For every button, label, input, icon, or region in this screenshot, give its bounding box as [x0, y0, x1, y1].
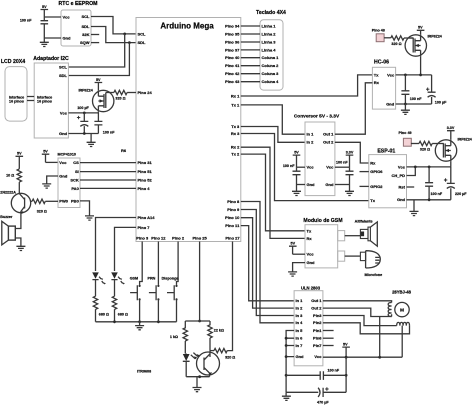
svg-text:Pino 51: Pino 51 — [138, 169, 153, 174]
ground (buzzer) — [16, 246, 25, 250]
svg-text:Pino 10: Pino 10 — [225, 215, 240, 220]
ground (RTC) — [40, 38, 49, 47]
transistor Q1 IRF9Z24 (adaptador supply) — [78, 89, 113, 112]
svg-text:22 kΩ: 22 kΩ — [214, 328, 224, 332]
wire resistor to gate — [404, 37, 414, 39]
svg-text:Pino 41: Pino 41 — [225, 63, 240, 68]
wire Pino 9 to In3 — [241, 210, 294, 316]
svg-text:In 5: In 5 — [296, 328, 304, 333]
svg-text:Out 1: Out 1 — [311, 298, 322, 303]
svg-text:Pino 43: Pino 43 — [225, 79, 240, 84]
svg-text:3.3V: 3.3V — [346, 150, 354, 154]
wire SDL to Adaptador — [68, 43, 129, 76]
svg-text:320 Ω: 320 Ω — [225, 355, 235, 359]
node emitter-rail — [198, 375, 201, 378]
svg-text:SQW: SQW — [80, 40, 90, 45]
node rail junctions — [113, 320, 160, 323]
wire Pino 2 to button — [177, 242, 179, 285]
svg-text:Out 1: Out 1 — [323, 132, 334, 137]
pin 32K stub — [91, 34, 99, 36]
svg-text:IRF9Z24: IRF9Z24 — [428, 35, 443, 39]
wire Pino 25 down — [199, 242, 201, 322]
svg-text:Pino 3: Pino 3 — [136, 236, 149, 241]
inductor coil B (bottom) — [397, 322, 410, 325]
wire Pino 8 to In4 — [241, 202, 294, 323]
node Gnd junction — [404, 103, 407, 106]
svg-text:ITR9608: ITR9608 — [137, 370, 151, 374]
svg-text:Linha 4: Linha 4 — [262, 47, 277, 52]
wire Pino A14 to LED1 — [96, 218, 137, 272]
svg-text:Teclado 4X4: Teclado 4X4 — [256, 10, 286, 16]
wire Pino 41 Coluna 2 — [241, 65, 260, 67]
pushbutton S2 PRN — [149, 285, 160, 301]
svg-text:Pino 7: Pino 7 — [138, 225, 151, 230]
svg-text:Linha 1: Linha 1 — [262, 23, 277, 28]
svg-text:Vcc: Vcc — [307, 252, 315, 257]
svg-text:Out 2: Out 2 — [311, 306, 322, 311]
wire Tx2 to GSM Tx — [241, 154, 305, 231]
svg-text:Adaptador I2C: Adaptador I2C — [33, 56, 69, 62]
pin Rst stub — [407, 186, 415, 188]
svg-text:SDL: SDL — [59, 73, 68, 78]
wire Pino 43 Coluna 4 — [241, 81, 260, 83]
wire gate to Pino 24 — [127, 92, 136, 94]
wire pad to gate resistor — [411, 143, 419, 145]
wire SCL RTC to Arduino — [91, 17, 136, 34]
resistor 320 ohm (pino 49) — [419, 141, 432, 151]
inductor coil A (left) — [388, 303, 391, 317]
wire 5V to MCP Vcc — [46, 161, 59, 163]
svg-text:Pin2: Pin2 — [313, 320, 322, 325]
svg-text:680 Ω: 680 Ω — [118, 313, 128, 317]
wire Out1 to coil A top — [323, 301, 392, 303]
ground (GSM) — [288, 272, 297, 276]
wire SCL to Adaptador — [68, 34, 124, 67]
wire ground rail (LEDs/buttons) — [96, 321, 177, 323]
wire PA0 to Pino 4 — [80, 187, 136, 189]
wire Rx2 to GSM Rx — [241, 147, 305, 238]
wire Pino 12 to button — [157, 242, 159, 285]
connector tab (microphone) — [338, 251, 345, 261]
wire ITR bottom rail — [186, 376, 209, 378]
ground (button rail) — [135, 322, 144, 330]
resistor 22 kOhm — [208, 321, 224, 351]
wire pad to gate resistor — [384, 37, 391, 39]
wire Pin3 to coil B left — [323, 316, 397, 326]
svg-text:Tx: Tx — [370, 198, 375, 203]
svg-text:CH_PD: CH_PD — [391, 173, 405, 178]
node Gnd-cap junction — [83, 132, 86, 135]
svg-text:Pino 11: Pino 11 — [225, 223, 240, 228]
pin Pin7 stub — [323, 345, 334, 347]
wire Pino 3 to button — [140, 242, 143, 285]
svg-text:In 4: In 4 — [296, 320, 304, 325]
power 3.3V (ESP MOSFET) — [447, 126, 455, 140]
svg-text:ESP-01: ESP-01 — [377, 149, 395, 155]
svg-text:Gnd: Gnd — [307, 182, 316, 187]
optocoupler ITR9608 — [137, 351, 220, 377]
svg-text:Pino 36: Pino 36 — [225, 39, 240, 44]
wire SDL RTC to Arduino — [91, 27, 136, 43]
svg-text:Microfone: Microfone — [365, 273, 383, 277]
svg-text:Pino 37: Pino 37 — [225, 47, 240, 52]
svg-text:Pino 2: Pino 2 — [172, 236, 185, 241]
resistor 1 kOhm — [170, 321, 188, 354]
svg-text:Modulo de GSM: Modulo de GSM — [303, 218, 342, 224]
svg-text:5V: 5V — [418, 26, 423, 30]
svg-text:28YBJ-48: 28YBJ-48 — [392, 290, 412, 295]
svg-text:M: M — [400, 308, 404, 313]
ground (MCP) — [42, 184, 51, 188]
svg-text:320 Ω: 320 Ω — [115, 96, 125, 100]
wire center tap down — [379, 317, 381, 358]
svg-text:MCP41010: MCP41010 — [58, 153, 76, 157]
svg-text:Rx 3: Rx 3 — [231, 131, 240, 136]
svg-text:Vcc: Vcc — [387, 72, 395, 77]
node SCL junction — [123, 33, 126, 36]
svg-text:Gnd: Gnd — [325, 182, 334, 187]
svg-text:PRN: PRN — [148, 276, 156, 280]
svg-text:Pino 9: Pino 9 — [227, 207, 240, 212]
resistor 320 ohm (pino 48) — [391, 36, 404, 46]
resistor 320 ohm (pino 27) — [214, 348, 235, 359]
svg-text:Pino 12: Pino 12 — [151, 236, 166, 241]
wire Rx3 to ESP Tx — [241, 134, 369, 201]
svg-text:In 6: In 6 — [296, 336, 304, 341]
svg-text:SCL: SCL — [82, 14, 91, 19]
svg-text:IRF9Z24: IRF9Z24 — [78, 89, 93, 93]
resistor 320 ohm (gate pino 24) — [110, 90, 127, 100]
svg-text:320 Ω: 320 Ω — [37, 209, 47, 213]
power 5V (2N2222A) — [16, 152, 24, 169]
wire HC-06 Vcc rail — [396, 74, 432, 76]
capacitor 470 uF (ULN) — [286, 387, 346, 404]
LED D2 — [111, 272, 125, 296]
pushbutton S1 GSM — [130, 285, 141, 301]
ground (ULN) — [282, 392, 291, 400]
svg-text:Tx: Tx — [374, 72, 379, 77]
svg-text:Pino 49: Pino 49 — [398, 131, 411, 135]
power 3.3V (conversor right) — [346, 150, 354, 167]
IC adaptador I2C — [33, 56, 69, 138]
svg-text:R6: R6 — [121, 148, 127, 153]
svg-text:100 µF: 100 µF — [77, 106, 89, 110]
capacitor 100 uF (HC-06) — [426, 75, 447, 104]
wire In5-In7/Gnd bus — [286, 331, 294, 393]
svg-text:470 µF: 470 µF — [317, 401, 329, 405]
node cap junction right — [345, 374, 348, 377]
wire ESP Gnd rail — [407, 199, 451, 201]
svg-text:Pino 27: Pino 27 — [225, 236, 240, 241]
connector tab (speaker) — [338, 231, 345, 241]
wire resistor to gate — [432, 143, 444, 145]
svg-text:Vcc: Vcc — [398, 164, 406, 169]
power 5V (MCP41010) — [42, 150, 50, 163]
wire ITR top rail — [185, 320, 210, 322]
resistor 680 ohm (LED2) — [112, 296, 128, 322]
node Vcc-cap junction — [83, 112, 86, 115]
svg-text:Pin1: Pin1 — [313, 328, 322, 333]
svg-text:100 nF: 100 nF — [20, 18, 32, 22]
ground (ESP) — [410, 200, 419, 216]
svg-text:In 1: In 1 — [296, 298, 304, 303]
wire Pino 10 to In2 — [241, 218, 294, 308]
IC U3 MCP41010 — [58, 153, 81, 208]
resistor 10 ohm — [6, 169, 21, 182]
wire Out1 to HC-06 Rx — [335, 83, 373, 134]
svg-text:Gnd: Gnd — [59, 131, 68, 136]
IC U4 ULN 2803 — [294, 285, 323, 366]
svg-text:100 nF: 100 nF — [431, 192, 443, 196]
wire Out2 to coil A bottom — [323, 308, 392, 316]
wire RTC Gnd — [44, 37, 61, 39]
svg-text:Pino 8: Pino 8 — [227, 199, 240, 204]
svg-text:Vcc: Vcc — [60, 110, 68, 115]
svg-text:Pin3: Pin3 — [313, 313, 322, 318]
svg-text:Disponga: Disponga — [162, 276, 180, 280]
stepper motor 28YBJ-48 — [392, 290, 412, 317]
wire drain to HC-06 Vcc rail — [420, 56, 422, 75]
speaker (altifalante) — [360, 222, 377, 246]
svg-text:In 1: In 1 — [307, 132, 315, 137]
svg-text:Vcc: Vcc — [63, 14, 71, 19]
svg-text:In 7: In 7 — [296, 343, 304, 348]
svg-text:Pino 24: Pino 24 — [138, 90, 153, 95]
wire collector node — [210, 350, 214, 352]
IC ESP-01 — [369, 149, 407, 208]
wire SCK to Pino 52 — [80, 179, 136, 181]
svg-text:Rx 1: Rx 1 — [231, 93, 240, 98]
svg-text:CS: CS — [73, 160, 79, 165]
svg-text:320 Ω: 320 Ω — [420, 148, 430, 152]
svg-text:Tx 3: Tx 3 — [231, 124, 240, 129]
svg-text:100 nF: 100 nF — [410, 97, 422, 101]
power 5V (GSM) — [289, 242, 297, 255]
wire conversor Vcc left — [297, 166, 306, 168]
wire buzzer to ground — [15, 238, 21, 246]
svg-text:ULN 2803: ULN 2803 — [301, 285, 321, 290]
svg-text:RTC e EEPROM: RTC e EEPROM — [59, 1, 98, 7]
power 5V (HC-06 MOSFET) — [417, 26, 425, 35]
node 5V junction — [345, 356, 348, 359]
buzzer — [0, 215, 15, 245]
wire adaptador Vcc rail — [68, 112, 98, 113]
microphone (microfone) — [360, 251, 382, 277]
ground (conversor left) — [292, 185, 301, 196]
resistor 680 ohm (LED1) — [93, 296, 109, 322]
node Pino25-rail — [198, 320, 201, 323]
wire adaptador Gnd rail — [68, 133, 98, 135]
svg-text:Pino 34: Pino 34 — [225, 23, 240, 28]
transistor Q3 IRF9Z24 (HC-06 supply) — [405, 35, 443, 57]
svg-text:Gnd: Gnd — [397, 197, 406, 202]
ground (ITR) — [193, 377, 202, 392]
svg-text:1 kΩ: 1 kΩ — [170, 335, 178, 339]
transistor Q4 IRF9Z24 (ESP supply) — [435, 138, 472, 162]
svg-text:5V: 5V — [291, 242, 296, 246]
node center tap junction — [378, 356, 381, 359]
svg-text:2N2222A: 2N2222A — [0, 191, 16, 195]
svg-text:32K: 32K — [82, 32, 89, 37]
svg-text:Rx: Rx — [370, 160, 376, 165]
pin Pin1 stub — [323, 330, 334, 332]
capacitor 100 uF (adaptador) — [77, 106, 90, 133]
wire Pino 35 Linha 2 — [241, 33, 260, 35]
wire Pino 36 Linha 3 — [241, 41, 260, 43]
svg-text:Conversor 5V - 3.3V: Conversor 5V - 3.3V — [294, 114, 340, 120]
svg-text:Tx 2: Tx 2 — [231, 152, 240, 157]
connector pad Pino 49 — [403, 138, 411, 146]
svg-text:SCL: SCL — [138, 31, 147, 36]
svg-text:5V: 5V — [343, 342, 348, 346]
svg-text:Gnd: Gnd — [307, 260, 316, 265]
svg-text:Pino 25: Pino 25 — [192, 236, 207, 241]
capacitor 100 nF (HC-06) — [401, 75, 422, 104]
svg-text:16 pinos: 16 pinos — [37, 99, 52, 103]
svg-text:GSM: GSM — [130, 276, 138, 280]
svg-text:In 3: In 3 — [296, 313, 304, 318]
svg-text:Pino 35: Pino 35 — [225, 31, 240, 36]
wire Pino 7 to LED2 — [115, 227, 137, 271]
node CH_PD junction — [414, 166, 417, 169]
svg-text:Coluna 3: Coluna 3 — [262, 71, 280, 76]
svg-text:Linha 2: Linha 2 — [262, 31, 277, 36]
pin GPIO6 stub — [360, 171, 369, 173]
wire PB0 to ground — [80, 201, 90, 216]
node Gnd cap junction — [428, 198, 431, 201]
svg-text:680 Ω: 680 Ω — [99, 313, 109, 317]
node Vcc junctions — [404, 74, 422, 77]
pin SQW stub — [91, 42, 99, 44]
wire cap column right — [345, 357, 347, 392]
IC conversor 5V-3.3V — [294, 114, 340, 196]
svg-text:Coluna 4: Coluna 4 — [262, 79, 280, 84]
capacitor 100 nF (conversor left) — [283, 164, 301, 185]
capacitor 100 nF (ULN) — [286, 368, 346, 380]
svg-text:SI: SI — [75, 169, 79, 174]
svg-text:100 nF: 100 nF — [336, 160, 348, 164]
svg-text:Tx 1: Tx 1 — [231, 102, 240, 107]
svg-text:Vcc: Vcc — [326, 165, 334, 170]
LCD 20X4 module — [1, 59, 27, 121]
wire Pino 34 Linha 1 — [241, 25, 260, 27]
resistor 320 ohm (base) — [32, 199, 47, 213]
wire CH_PD tie to Vcc — [407, 167, 416, 176]
wire Out2 to ESP Rx — [335, 142, 369, 163]
IC modulo de GSM — [303, 218, 342, 268]
wire resistor to PW0 — [45, 200, 58, 202]
svg-text:Rx: Rx — [374, 80, 380, 85]
IC HC-06 — [372, 60, 395, 109]
svg-text:PW0: PW0 — [59, 198, 68, 203]
wire 5V to GSM Vcc — [293, 253, 305, 255]
svg-text:SDL: SDL — [82, 24, 91, 29]
svg-text:Pino A14: Pino A14 — [138, 215, 156, 220]
svg-text:Buzzer: Buzzer — [0, 215, 13, 219]
wire Tx1 to conversor In1 — [241, 105, 305, 134]
wire buttons to rail — [140, 299, 177, 321]
svg-text:SCK: SCK — [70, 177, 79, 182]
svg-text:Pin7: Pin7 — [313, 343, 322, 348]
svg-text:Rst: Rst — [399, 184, 406, 189]
svg-text:In 2: In 2 — [296, 306, 304, 311]
ground (HC-06) — [401, 104, 410, 114]
wire Tx3 to conversor In2 — [241, 127, 305, 143]
svg-text:Linha 3: Linha 3 — [262, 39, 277, 44]
svg-text:Pino 40: Pino 40 — [225, 55, 240, 60]
wire Pino 27 down — [227, 242, 232, 351]
svg-text:100 nF: 100 nF — [103, 131, 115, 135]
svg-text:Altifalante: Altifalante — [355, 219, 373, 223]
svg-text:Pino 48: Pino 48 — [372, 28, 385, 32]
wire conversor Gnd right — [335, 184, 350, 186]
power 5V (ULN) — [342, 342, 350, 357]
svg-text:Gnd: Gnd — [59, 174, 68, 179]
svg-text:Pino 4: Pino 4 — [138, 186, 151, 191]
wire LCD-adaptador interface — [27, 97, 34, 101]
svg-text:Pino 52: Pino 52 — [138, 177, 153, 182]
wire GSM Gnd — [293, 263, 305, 272]
svg-text:PB0: PB0 — [71, 198, 80, 203]
svg-text:Vcc: Vcc — [59, 160, 67, 165]
svg-text:3.3V: 3.3V — [447, 126, 455, 130]
svg-text:Out 2: Out 2 — [323, 140, 334, 145]
wire Pino 37 Linha 4 — [241, 49, 260, 51]
wire tab to microphone — [345, 255, 361, 257]
capacitor 100 nF (adaptador) — [94, 113, 115, 135]
ground (PB0) — [85, 216, 94, 220]
wire ESP Vcc rail — [407, 166, 451, 168]
svg-text:5V: 5V — [96, 78, 101, 82]
svg-text:Gnd: Gnd — [63, 35, 72, 40]
ground (conversor right) — [345, 185, 354, 196]
pin GPIO2 stub — [360, 185, 369, 187]
wire coil B center tap — [401, 326, 403, 358]
node Vcc cap junction — [428, 166, 431, 169]
capacitor 100 nF (ESP) — [425, 167, 443, 200]
svg-text:220 µF: 220 µF — [455, 192, 467, 196]
svg-text:Gnd: Gnd — [386, 101, 395, 106]
svg-text:Coluna 2: Coluna 2 — [262, 63, 280, 68]
capacitor 220 uF (ESP) — [444, 167, 467, 200]
wire Pin2 to coil B right — [323, 323, 410, 334]
svg-text:SDL: SDL — [138, 40, 147, 45]
svg-text:Pino 31: Pino 31 — [138, 160, 153, 165]
pushbutton S3 Disponga — [167, 285, 178, 301]
svg-text:100 nF: 100 nF — [328, 368, 340, 372]
svg-text:Rx: Rx — [307, 236, 313, 241]
wire RTC Vcc — [44, 16, 61, 18]
svg-text:Coluna 1: Coluna 1 — [262, 55, 280, 60]
svg-text:100 nF: 100 nF — [283, 164, 295, 168]
svg-text:HC-06: HC-06 — [374, 60, 389, 66]
IC U2 Arduino Mega — [136, 18, 241, 242]
capacitor 100 nF (conversor right) — [336, 160, 354, 184]
svg-text:LCD 20X4: LCD 20X4 — [1, 59, 25, 65]
wire base — [31, 200, 32, 202]
IC U1 RTC e EEPROM — [59, 1, 98, 46]
svg-text:SCL: SCL — [59, 65, 68, 70]
power 5V (RTC) — [41, 5, 49, 17]
svg-text:100 µF: 100 µF — [435, 100, 447, 104]
wire Pino 40 Coluna 1 — [241, 57, 260, 59]
power 5V (MOSFET adaptador) — [95, 78, 103, 90]
node bus junctions — [285, 337, 288, 377]
wire Pino 11 to In1 — [241, 226, 294, 301]
wire conversor Vcc right — [335, 166, 350, 168]
wire conversor Gnd left — [297, 184, 306, 186]
svg-text:Rx 2: Rx 2 — [231, 145, 240, 150]
